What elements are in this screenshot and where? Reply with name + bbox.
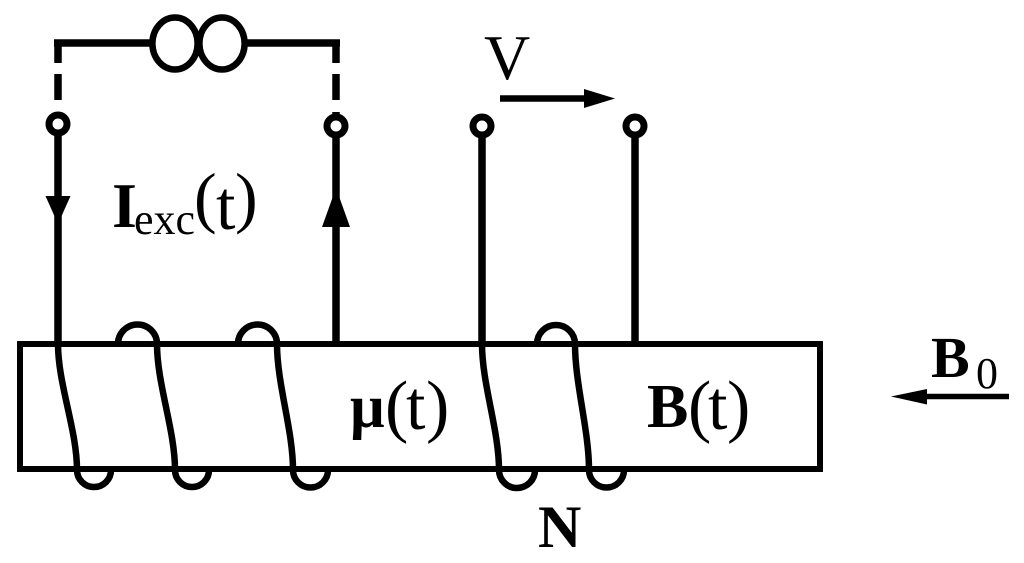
svg-text:B: B [931,325,970,390]
svg-text:exc: exc [134,195,195,244]
terminal sense right [626,117,644,135]
svg-text:t: t [406,368,426,445]
svg-text:B: B [647,373,688,441]
svg-text:): ) [727,368,750,445]
AC source U1 (two overlapping circles) [152,18,244,70]
svg-text:N: N [538,494,581,560]
svg-text:(: ( [385,368,408,445]
svg-text:μ: μ [350,374,385,441]
wire left excitation vertical [54,135,62,344]
sense coil turn 2 (top loop + strand + bottom loop) [537,325,624,488]
svg-text:V: V [484,22,530,93]
terminal right excitation [327,117,345,135]
excitation coil turn 3 (top loop + strand + bottom loop) [238,325,328,488]
svg-text:(: ( [194,159,217,235]
wire right excitation vertical [332,136,340,344]
svg-text:): ) [235,159,258,235]
excitation coil turn 2 (top loop + strand + bottom loop) [118,325,209,488]
arrow V direction [500,95,584,102]
wire top horizontal between source and corners [54,39,340,47]
svg-text:): ) [426,368,449,445]
svg-text:t: t [216,168,236,245]
arrow down on left excitation wire [46,196,71,224]
terminal left excitation [49,115,67,133]
core bar [20,344,820,469]
terminal sense left [473,117,491,135]
wire sense right vertical [631,136,639,344]
wire right dashed drop [332,41,340,114]
wire sense left vertical [478,136,486,344]
arrow B0 direction [927,394,1009,400]
wire left dashed drop [54,41,62,112]
svg-text:0: 0 [976,349,998,398]
svg-text:t: t [708,368,728,445]
excitation coil turn 1 (strand + bottom loop) [58,344,111,487]
arrow up on right excitation wire [322,188,350,227]
sense coil turn 1 (strand + bottom loop) [482,344,535,488]
